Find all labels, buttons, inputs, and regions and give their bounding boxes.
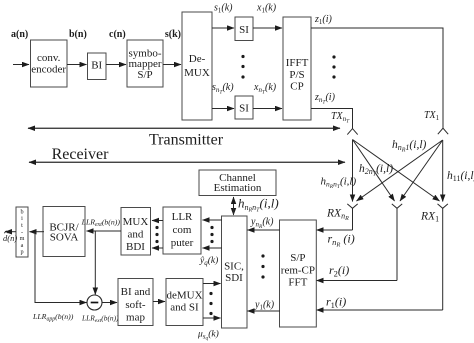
block IFFT P/S CP [283, 17, 311, 120]
wire deMUX to SIC top [203, 283, 221, 285]
svg-text:z1(i): z1(i) [314, 14, 333, 26]
block SI top [235, 17, 253, 41]
dots between MUX and LLR [155, 226, 158, 243]
block LLR computer [163, 207, 201, 254]
wire r_nR to S/P [317, 229, 353, 231]
svg-text:Transmitter: Transmitter [149, 132, 224, 149]
svg-text:MUX: MUX [184, 67, 210, 79]
svg-text:S/P: S/P [290, 252, 305, 264]
antenna RXnR [347, 204, 357, 230]
channel TXnT to RX2 [353, 140, 395, 202]
wire a(n) input [13, 64, 29, 66]
wire BI to deMUX [153, 301, 165, 303]
dots between deMUX and SIC [209, 292, 212, 315]
block BCJR SOVA [43, 207, 85, 257]
svg-text:SI: SI [239, 103, 249, 115]
wire subtractor to BI soft map [102, 302, 118, 304]
svg-text:IFFT: IFFT [286, 57, 309, 69]
svg-text:b(n): b(n) [69, 29, 87, 40]
svg-text:soft-: soft- [125, 299, 146, 311]
svg-text:r1(i): r1(i) [326, 295, 346, 310]
block BI [88, 53, 107, 80]
svg-text:SIC,: SIC, [224, 261, 244, 273]
block conv. encoder [31, 40, 68, 87]
block SI bottom [235, 96, 253, 119]
dots between SIC and SP [261, 254, 264, 278]
wire MUX to BCJR [87, 230, 122, 232]
wire LLR to MUX bottom [152, 247, 163, 249]
wire DeMUX to SI bottom [212, 108, 234, 110]
channel TX1 to RXnR [357, 140, 443, 201]
svg-text:BI and: BI and [121, 286, 151, 298]
wire SIC to LLR top [203, 219, 223, 221]
wire SI top to IFFT [253, 27, 282, 29]
wire SP to SIC y1 [248, 310, 281, 312]
svg-text:SOVA: SOVA [50, 232, 79, 244]
svg-text:FFT: FFT [288, 277, 307, 289]
block Channel Estimation [199, 170, 276, 196]
svg-text:LLR: LLR [172, 211, 193, 223]
svg-text:s(k): s(k) [165, 29, 181, 40]
svg-text:encoder: encoder [31, 64, 66, 76]
svg-text:com: com [173, 224, 192, 236]
antenna RX1 [438, 204, 448, 310]
antenna TX1 [438, 128, 448, 134]
svg-text:y1(k): y1(k) [254, 300, 275, 312]
wire z1 to TX1 antenna [311, 28, 443, 128]
svg-text:ŷq(k): ŷq(k) [199, 255, 218, 267]
block SIC SDI [222, 216, 248, 328]
channel TX1 to RX2 [400, 140, 443, 201]
wire BI to mapper [106, 64, 126, 66]
dots between SI boxes [241, 55, 244, 79]
wire LLR_ext branch to subtractor [94, 231, 96, 295]
svg-text:and SI: and SI [170, 302, 199, 314]
wire SP to SIC y_nR [248, 229, 281, 231]
block bit map [16, 207, 28, 257]
wire r2 to S/P [317, 280, 398, 282]
svg-text:conv.: conv. [37, 52, 61, 64]
svg-text:c(n): c(n) [109, 29, 126, 40]
svg-text:s1(k): s1(k) [214, 3, 233, 15]
svg-text:S/P: S/P [137, 69, 152, 81]
wire r1 to S/P [317, 309, 443, 311]
svg-text:a(n): a(n) [11, 29, 28, 40]
svg-text:BI: BI [91, 60, 102, 72]
svg-text:and: and [128, 229, 144, 241]
wire DeMUX to SI top [212, 27, 234, 29]
svg-text:x1(k): x1(k) [256, 3, 277, 15]
block De-MUX [182, 12, 212, 120]
wire SI bottom to IFFT [253, 108, 282, 110]
svg-text:p: p [20, 249, 23, 256]
svg-text:puter: puter [171, 237, 194, 249]
block BI and soft-map [118, 279, 153, 326]
svg-text:Receiver: Receiver [52, 146, 110, 163]
svg-text:deMUX: deMUX [166, 290, 202, 302]
wire bitmap output [5, 231, 16, 233]
svg-text:CP: CP [290, 81, 303, 93]
wire LLR_app branch to subtractor [35, 232, 87, 303]
block S/P rem-CP FFT [280, 220, 317, 327]
wire mapper to DeMUX [163, 64, 181, 66]
wire conv to BI [67, 64, 87, 66]
wire channel est to SIC double arrow [233, 197, 235, 215]
wire znT to TXnT antenna [311, 109, 353, 129]
svg-text:SDI: SDI [225, 272, 243, 284]
block deMUX and SI [166, 279, 203, 326]
dots right of IFFT [332, 55, 335, 78]
antenna TXnT [347, 129, 357, 135]
svg-text:De-: De- [189, 53, 206, 65]
svg-text:BDI: BDI [126, 241, 145, 253]
svg-text:SI: SI [239, 24, 249, 36]
wire deMUX to SIC bottom [203, 317, 221, 319]
antenna RX2 [392, 204, 402, 281]
block symbol mapper S/P [127, 40, 163, 87]
subtractor circle [87, 295, 102, 310]
svg-text:P/S: P/S [289, 69, 304, 81]
svg-text:MUX: MUX [123, 216, 149, 228]
svg-text:rem-CP: rem-CP [281, 265, 315, 277]
wire SIC to LLR bottom [203, 247, 223, 249]
svg-text:h11(i,l): h11(i,l) [447, 170, 474, 183]
svg-text:Estimation: Estimation [214, 182, 262, 194]
receiver span arrow [29, 161, 345, 163]
svg-text:d(n): d(n) [3, 233, 17, 243]
wire LLR to MUX top [152, 220, 163, 222]
wire BCJR to bitmap [30, 231, 45, 233]
channel TXnT to RXnR [352, 140, 354, 202]
svg-text:map: map [126, 312, 145, 324]
channel TXnT to RX1 [353, 140, 440, 202]
block MUX and BDI [121, 208, 151, 256]
transmitter span arrow [28, 127, 340, 129]
channel TX1 to RX1 [442, 140, 444, 202]
dots between LLR and SIC [210, 226, 213, 243]
svg-text:r2(i): r2(i) [329, 263, 349, 278]
